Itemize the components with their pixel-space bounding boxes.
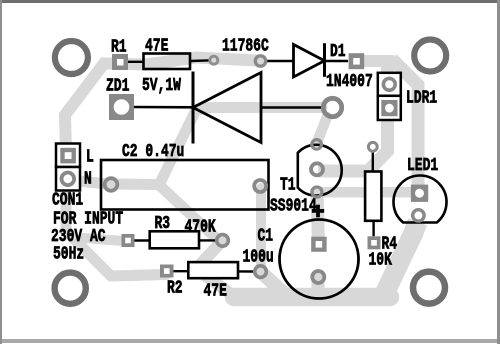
mounting hole top-right — [414, 40, 446, 72]
label 230V AC — [51, 226, 106, 247]
svg-text:CON1: CON1 — [52, 190, 83, 211]
svg-text:LDR1: LDR1 — [406, 88, 437, 109]
pad ring C2 right — [254, 180, 266, 192]
wire net N: CON1-N pad to C2 left ring — [68, 180, 107, 184]
label ZD1 — [106, 76, 129, 97]
label C2 0.47u — [122, 141, 184, 162]
pad R4 bottom square — [368, 236, 381, 249]
wire R4 leads — [372, 152, 375, 237]
wire bottom ground band — [234, 288, 390, 307]
svg-text:SS9014: SS9014 — [270, 196, 317, 217]
capacitor C2 outline — [101, 160, 269, 210]
label LDR1 — [406, 88, 437, 109]
pad ring R1 right — [210, 56, 218, 64]
pad C1 plus square — [311, 237, 326, 252]
svg-text:L: L — [86, 146, 94, 167]
D1 triangle — [294, 45, 325, 78]
pad ring LED1 cathode — [413, 210, 424, 221]
pad CON1-L square — [60, 148, 76, 164]
pad ring T1 top — [312, 140, 322, 150]
svg-text:50Hz: 50Hz — [53, 244, 84, 265]
capacitor C1 outline — [280, 220, 359, 299]
svg-text:1N4007: 1N4007 — [326, 71, 373, 92]
label 47E for R2 — [204, 281, 227, 302]
wire R3 leads — [134, 239, 215, 242]
resistor R2 body — [188, 262, 238, 278]
label SS9014 — [270, 196, 317, 217]
LDR1 outline boxes — [378, 73, 401, 120]
label CON1 — [52, 190, 83, 211]
mounting hole top-left — [55, 41, 88, 74]
svg-text:100u: 100u — [243, 247, 274, 268]
resistor R3 body — [150, 231, 199, 248]
wire R1 left lead — [128, 61, 144, 63]
pad R1 left square — [112, 54, 128, 70]
wire T1 bottom pad across to LED1 anode pad — [317, 187, 414, 198]
wire corner diagonal down to LED1 anode pad — [392, 59, 418, 190]
wire R3 right ring zigzag behind R2 to ground band — [196, 241, 238, 299]
label R1 — [111, 37, 127, 58]
pad ring R4 top — [368, 142, 377, 151]
label D1 — [330, 41, 346, 62]
svg-text:470K: 470K — [185, 217, 217, 238]
svg-text:R1: R1 — [111, 37, 127, 58]
label 5V,1W — [142, 75, 181, 96]
D1 cathode bar — [323, 43, 326, 77]
wire inside C2 footprint: C2 left ring to fork — [110, 179, 160, 191]
pad R2 left square — [160, 265, 174, 278]
svg-text:10K: 10K — [369, 250, 393, 271]
svg-text:C1: C1 — [258, 226, 274, 247]
svg-text:N: N — [84, 169, 92, 190]
connector CON1 outline boxes — [56, 144, 80, 191]
wire D1 cathode lead — [325, 60, 349, 63]
pad ring node A (zener output) — [323, 98, 341, 116]
mounting hole bottom-left — [55, 273, 86, 304]
label T1 — [280, 175, 296, 196]
label 10K — [369, 250, 393, 271]
svg-text:47E: 47E — [145, 36, 168, 57]
wire branch down to R3 right ring — [158, 184, 217, 239]
zener ZD1 symbol — [134, 72, 321, 144]
svg-text:11786C: 11786C — [222, 36, 269, 57]
pad ring R2 right — [255, 266, 267, 278]
label N — [84, 169, 92, 190]
mounting hole bottom-right — [413, 272, 445, 304]
wire C1 minus ring to ground band — [312, 278, 325, 296]
wire ZD1 anode lead — [134, 106, 193, 109]
label R4 — [382, 234, 398, 255]
wire R2 leads — [173, 270, 254, 273]
pad ring C1 minus — [312, 271, 324, 283]
label R2 — [167, 278, 183, 299]
pad R3 left square — [122, 234, 135, 247]
pad LED1 anode square — [411, 185, 428, 202]
svg-text:R2: R2 — [167, 278, 183, 299]
wire branch behind 230V text to R3 left pad — [84, 238, 124, 241]
pad ZD1 square — [109, 94, 134, 120]
wire net L: CON1-L pad up to R1 row across to D1 anode ring — [65, 58, 258, 153]
label LED1 — [407, 155, 438, 176]
page border frame — [0, 0, 500, 3]
label 50Hz — [53, 244, 84, 265]
wire T1 bottom pad down to C1 plus pad — [317, 192, 319, 243]
transistor T1 outline — [298, 145, 342, 196]
wire C2 right ring down to R2 right ring — [256, 188, 266, 270]
pad ring C2 left — [105, 178, 118, 191]
wire D1 pad to corner — [357, 55, 394, 67]
wire CON1-N down behind input text to R2 left pad — [66, 186, 166, 276]
svg-text:5V,1W: 5V,1W — [142, 75, 181, 96]
label board number 11786C — [222, 36, 269, 57]
wire corner down behind LDR1 boxes to T1 middle pad — [318, 56, 388, 172]
resistor R1 body — [128, 54, 209, 70]
pad ring T1 bottom — [312, 187, 322, 197]
pad ring T1 middle — [311, 163, 323, 175]
svg-text:D1: D1 — [330, 41, 346, 62]
wire ground band diagonal up to LED1 cathode ring — [381, 222, 418, 301]
pad LDR1 bottom square — [381, 100, 397, 116]
svg-text:C2 0.47u: C2 0.47u — [122, 141, 184, 162]
label 470K — [185, 217, 217, 238]
C1 polarity plus mark — [312, 205, 324, 218]
label 100u — [243, 247, 274, 268]
wire ZD1 output lead — [261, 106, 321, 109]
svg-text:T1: T1 — [280, 175, 296, 196]
svg-text:R3: R3 — [155, 213, 171, 234]
label L — [86, 146, 94, 167]
pad ring LDR1 top — [383, 78, 395, 90]
wire node ring to T1 top pad — [318, 117, 328, 141]
wire D1 anode lead — [266, 60, 294, 63]
pad ring R3 right — [217, 235, 229, 247]
label FOR INPUT — [53, 209, 124, 230]
wire R1 right lead — [190, 59, 209, 62]
diode D1 symbol — [266, 43, 348, 77]
svg-text:ZD1: ZD1 — [106, 76, 129, 97]
label R3 — [155, 213, 171, 234]
wire R2 right ring to ground band — [262, 273, 288, 297]
svg-text:47E: 47E — [204, 281, 227, 302]
pad ring CON1-N — [62, 173, 75, 186]
resistor R4 body — [365, 172, 381, 221]
LED1 outline — [394, 176, 447, 223]
label 47E for R1 — [145, 36, 168, 57]
pad ring D1 anode — [255, 56, 265, 66]
ZD1 cathode bar — [192, 72, 195, 144]
wire branch up to zener output row and node ring — [159, 108, 322, 186]
pad D1 cathode square — [349, 53, 365, 69]
ZD1 triangle — [193, 73, 261, 143]
label C1 — [258, 226, 274, 247]
svg-text:LED1: LED1 — [407, 155, 438, 176]
label 1N4007 — [326, 71, 373, 92]
